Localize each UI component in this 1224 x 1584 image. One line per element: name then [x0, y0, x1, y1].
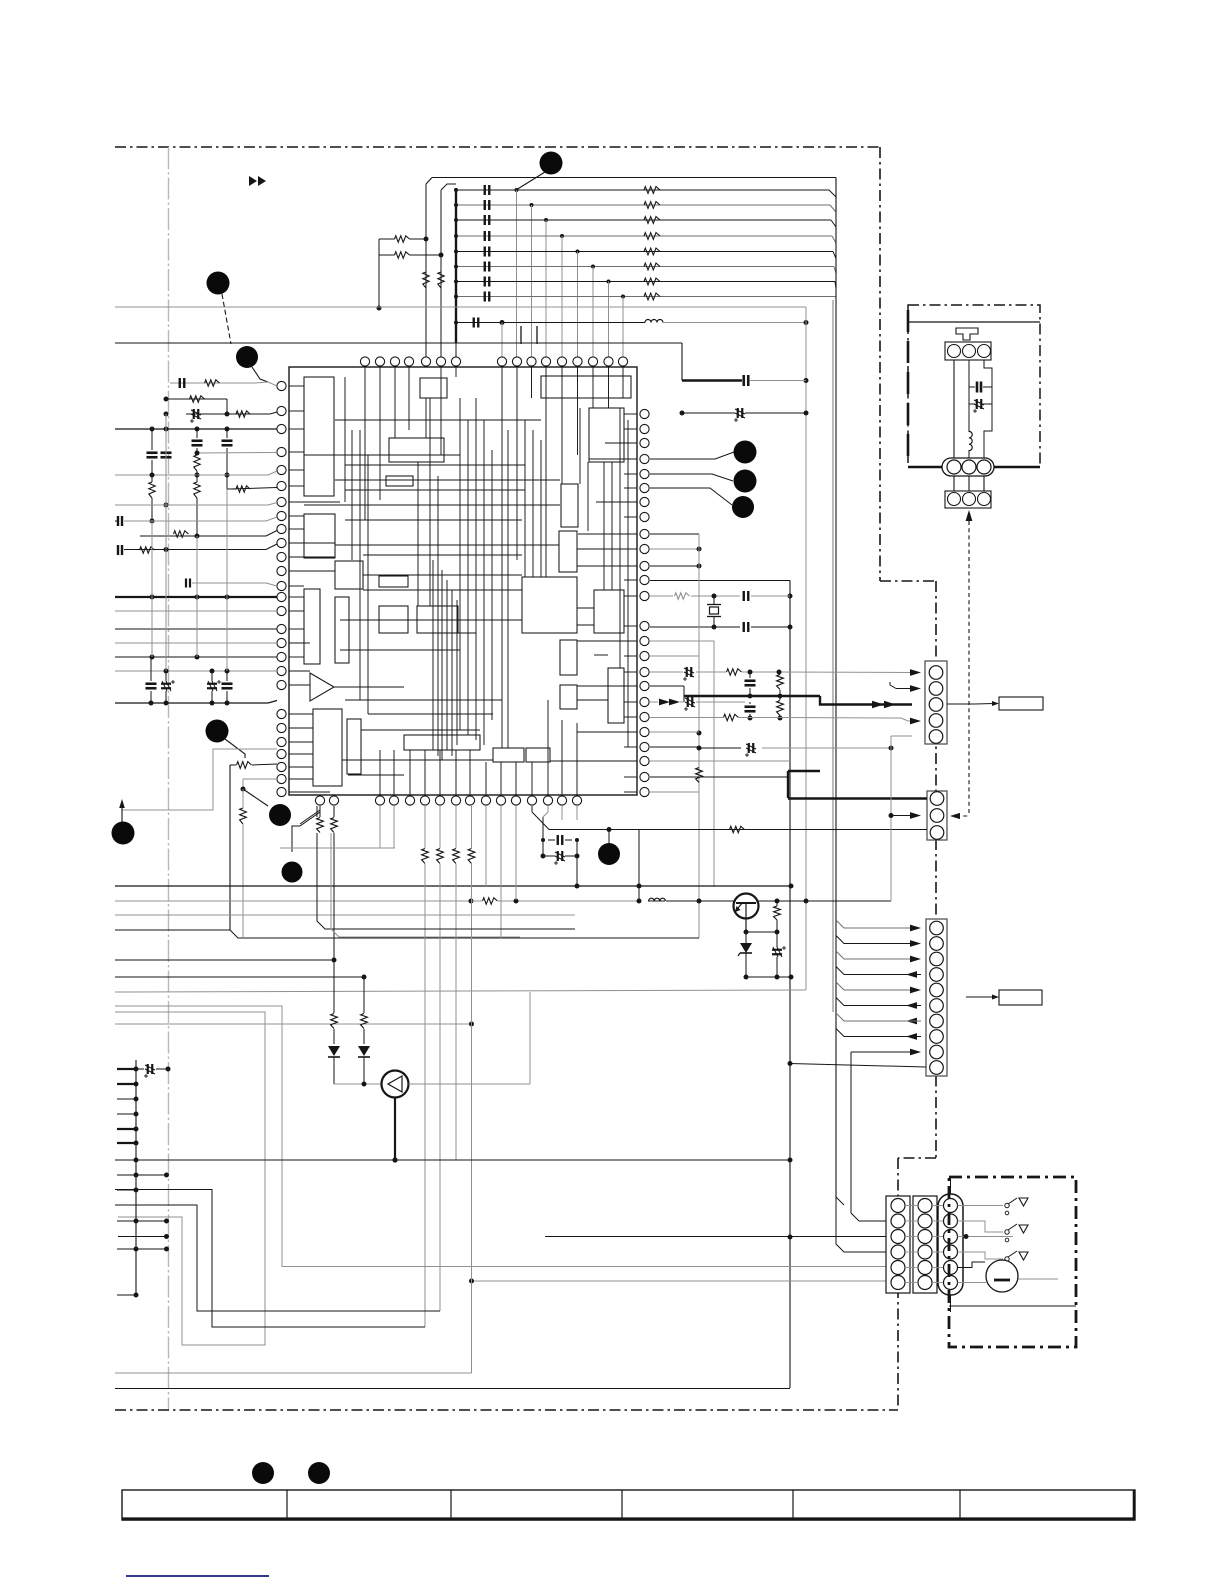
capacitor C22 — [743, 622, 745, 632]
wire: data bus line 6 — [456, 266, 834, 268]
wire y886 long — [115, 885, 791, 887]
IC internal block 2 — [420, 378, 447, 398]
diode D2 — [363, 977, 365, 1013]
IC U1 right pin — [640, 742, 649, 751]
junction — [454, 188, 458, 192]
wire bus fan 2 — [836, 936, 912, 944]
resistor R123 — [644, 233, 660, 240]
wire: right dash-dot boundary lower — [897, 1158, 899, 1408]
wire: thick vertical bus x456 — [455, 188, 457, 343]
IC internal block 15 — [559, 531, 577, 572]
wire pin13 cap — [192, 582, 266, 584]
capacitor C115 — [484, 262, 486, 272]
subunit box dash-dot — [949, 1177, 1076, 1347]
wire pin14 thick — [115, 596, 277, 598]
IC U1 bottom pin — [511, 796, 520, 805]
capacitor C12 — [146, 682, 157, 685]
wire motor feed — [958, 1262, 986, 1268]
capacitor C42 electrolytic — [557, 851, 559, 861]
arrow into CN2 pin1 — [910, 669, 921, 676]
capacitor C9 — [185, 579, 187, 588]
wire — [650, 533, 699, 535]
arrow — [910, 940, 921, 947]
wire: corner — [805, 307, 807, 323]
wire diag — [300, 806, 320, 824]
capacitor C123 electrolytic — [737, 408, 739, 418]
arrow — [910, 925, 921, 932]
wire CN3 pin2 — [891, 815, 912, 817]
caps under IC — [531, 806, 533, 812]
cap pair under IC — [542, 817, 544, 856]
IC U1 left pin — [277, 424, 286, 433]
wire bus fan 6 — [836, 998, 912, 1006]
IC U1 top pin — [390, 357, 399, 366]
IC internal block 5 — [389, 438, 444, 462]
IC U1 right pin — [640, 483, 649, 492]
pin 1 — [948, 493, 961, 506]
IC internal block 4 — [589, 408, 624, 462]
IC U1 top pin — [512, 357, 521, 366]
wire thick stem — [394, 1098, 396, 1161]
wire y1373 — [115, 1372, 472, 1374]
IC U1 top pin — [527, 357, 536, 366]
junction — [454, 234, 458, 238]
callout wire — [650, 452, 734, 459]
IC U1 left pin — [277, 406, 286, 415]
callout dot 11 — [598, 843, 620, 865]
wire thick to CN2 pin3 — [820, 696, 912, 705]
wire pin1 fan — [836, 1197, 844, 1205]
wire y1012 — [115, 1012, 265, 1345]
wire thick into CN3 pin1 — [788, 797, 927, 799]
wire stub — [117, 1113, 136, 1115]
resistor R102 — [438, 272, 444, 288]
wire y1175 stub — [118, 1174, 167, 1176]
wire CN4 pin9 — [851, 1051, 912, 1053]
wire — [229, 765, 231, 930]
wire stub pin380 — [379, 806, 381, 848]
wire pin3 long — [115, 428, 277, 430]
wire: thick supply y380 — [682, 379, 742, 382]
IC U1 top pin — [404, 357, 413, 366]
wire pin7 long — [115, 504, 268, 506]
CN6 pin 3 — [918, 1230, 932, 1244]
IC internal block 17 — [594, 590, 624, 633]
wire y1281 — [472, 1280, 887, 1282]
IC U1 top pin — [497, 357, 506, 366]
wire inner — [949, 1305, 1076, 1307]
pin 1 — [947, 460, 961, 474]
IC U1 left pin — [277, 709, 286, 718]
wire xtal net — [650, 595, 673, 597]
diode D1 — [333, 960, 335, 1013]
capacitor C15 — [222, 682, 233, 685]
wire — [953, 360, 955, 462]
wire: bus vertical x836 — [835, 178, 837, 1198]
wire y977 join — [746, 976, 791, 978]
IC U1 bottom pin — [572, 796, 581, 805]
wire bus fan 1 — [836, 920, 912, 928]
wire to IC pin x502 — [501, 323, 503, 358]
wire pin5 long — [115, 474, 268, 476]
IC U1 right pin — [640, 409, 649, 418]
resistor R121 — [644, 202, 660, 209]
capacitor C51 electrolytic — [147, 1064, 149, 1074]
IC U1 left pin — [277, 581, 286, 590]
crystal-like trimmer CT801 — [956, 328, 978, 340]
CN7 pin 3 — [944, 1230, 958, 1244]
capacitor C116 — [484, 277, 486, 287]
wire — [543, 806, 548, 817]
resistor R103 — [395, 236, 410, 242]
wire pin4 — [197, 452, 277, 455]
wire: data bus line 3 — [456, 219, 831, 221]
wire bus fan 5 — [836, 982, 912, 990]
CN6 pin 4 — [918, 1245, 932, 1259]
capacitor C41 — [557, 835, 559, 845]
IC internal block 25 — [526, 748, 550, 762]
wire: corner x682 — [681, 343, 683, 381]
wire to IC pin — [516, 190, 518, 357]
crystal X1 — [713, 596, 715, 604]
wire pin17 — [115, 642, 277, 644]
wire pin9 — [140, 535, 266, 537]
pin 1 — [948, 345, 961, 358]
junction — [607, 280, 611, 284]
wire y1006 — [115, 1006, 886, 1267]
wire x227 link — [226, 489, 228, 671]
wire — [968, 360, 970, 384]
wire — [908, 321, 1040, 323]
wire 45-bend into bus — [835, 282, 836, 289]
wire pin747 net — [650, 746, 699, 748]
resistor R3 — [236, 411, 250, 417]
wire: right dash-dot boundary mid — [935, 581, 937, 1158]
callout wire — [650, 474, 733, 481]
wire 45-bend into bus — [831, 220, 836, 227]
wire y1249 stub — [118, 1248, 167, 1250]
wire pin15 — [115, 610, 277, 612]
wire — [650, 731, 699, 733]
pin 2 — [963, 493, 976, 506]
junction — [530, 203, 534, 207]
wire y977 — [115, 976, 364, 978]
IC internal block 20 — [608, 668, 624, 723]
arrow up-gnd — [119, 799, 125, 808]
CN2 pin 5 — [929, 730, 943, 744]
callout dot 12 — [252, 1462, 274, 1484]
arrow to connector — [966, 510, 973, 521]
IC internal block 12 — [379, 606, 408, 633]
double arrow — [872, 701, 884, 708]
capacitor C117 — [484, 292, 486, 302]
wire: vertical x426 — [425, 184, 427, 362]
capacitor C26 — [745, 705, 756, 708]
IC U1 top pin — [618, 357, 627, 366]
zener diode D31 — [745, 932, 747, 943]
IC U1 top pin — [573, 357, 582, 366]
wire — [650, 655, 699, 657]
wire callout — [516, 172, 545, 190]
resistor R1 — [205, 380, 220, 386]
IC U1 top pin — [375, 357, 384, 366]
callout wire — [225, 739, 245, 758]
CN2 pin 1 — [929, 666, 943, 680]
wire — [515, 806, 517, 900]
IC U1 left pin — [277, 638, 286, 647]
wire — [650, 565, 699, 567]
CN7 pin 6 — [944, 1276, 958, 1290]
wire — [334, 1083, 382, 1085]
IC U1 right pin — [640, 651, 649, 660]
CN5 pin 6 — [891, 1276, 905, 1290]
IC internal block 3 — [541, 376, 631, 398]
wire — [958, 1282, 987, 1284]
IC U1 bottom pin — [557, 796, 566, 805]
wire y1205 route — [115, 1205, 440, 1311]
wire: bottom dash-dot boundary — [115, 1409, 898, 1411]
arrow — [906, 1033, 917, 1040]
wire: vertical x806 — [805, 307, 807, 990]
wire x790 vertical — [789, 581, 791, 1389]
IC U1 bottom pin — [451, 796, 460, 805]
wire: data bus line 4 — [456, 235, 832, 237]
title divider — [792, 1490, 794, 1520]
IC U1 bottom pin — [543, 796, 552, 805]
connector CN7 stadium — [938, 1194, 963, 1295]
double arrow marker — [249, 176, 257, 186]
wire — [650, 760, 790, 762]
resistor R43 — [422, 849, 429, 864]
wire x699 vertical — [698, 534, 700, 938]
capacitor C112 — [484, 215, 486, 225]
wire — [409, 1083, 531, 1085]
connector CN801 upper — [945, 342, 991, 360]
IC U1 left pin — [277, 592, 286, 601]
wire stub — [117, 1083, 136, 1085]
IC U1 top pin — [421, 357, 430, 366]
wire — [650, 685, 684, 687]
CN4 pin 1 — [930, 921, 944, 935]
capacitor C31 electrolytic — [772, 949, 782, 951]
wire to IC pin — [531, 205, 533, 357]
motor M1 — [986, 1260, 1018, 1292]
CN5 pin 5 — [891, 1261, 905, 1275]
wire — [968, 404, 970, 432]
IC internal wiring mesh — [364, 367, 366, 520]
capacitor C5 — [192, 439, 203, 442]
IC U1 right pin — [640, 712, 649, 721]
IC U1 right pin — [640, 756, 649, 765]
wire — [650, 776, 788, 778]
junction — [454, 265, 458, 269]
junction — [544, 218, 548, 222]
connector CN802 stadium — [942, 458, 994, 476]
wire stub — [117, 1174, 136, 1176]
wire: dash-dot jog — [880, 580, 936, 582]
capacitor C23 electrolytic — [686, 667, 688, 677]
resistor R22 — [727, 669, 742, 675]
transistor Q1 — [734, 894, 759, 919]
wire sw2 — [958, 1221, 1004, 1232]
capacitor C802 electrolytic — [976, 399, 978, 409]
wire x714 vertical — [713, 641, 715, 887]
wire pin1 — [170, 382, 277, 386]
IC U1 left pin — [277, 624, 286, 633]
wire base net y901 — [115, 900, 471, 902]
wire stub — [117, 1189, 136, 1191]
IC internal block 23 — [404, 735, 480, 750]
wire to IC pin — [561, 236, 563, 357]
resistor R32 — [774, 906, 781, 920]
wire to IC pin — [622, 297, 624, 358]
wire — [650, 548, 699, 550]
wire — [650, 626, 740, 628]
resistor R7 — [236, 486, 250, 492]
wire bus fan 7 — [836, 1013, 912, 1021]
IC U1 right pin — [640, 497, 649, 506]
wire y938 — [115, 929, 230, 931]
wire pin 672 net — [650, 671, 683, 673]
wire arrow CN2 pin2 — [896, 688, 912, 690]
resistor R24 — [777, 701, 784, 716]
IC U1 left pin — [277, 680, 286, 689]
junction — [515, 188, 519, 192]
wire — [953, 476, 955, 491]
wire 45-bend into bus — [834, 267, 836, 274]
capacitor C122 — [742, 375, 745, 386]
wire — [650, 791, 699, 793]
wire stub — [117, 1098, 136, 1100]
CN4 pin 3 — [930, 952, 944, 966]
IC internal block 18 — [560, 640, 577, 675]
CN5 pin 1 — [891, 1199, 905, 1213]
resistor R46 — [468, 849, 475, 864]
wire pin24 path — [122, 749, 277, 810]
capacitor C7 — [117, 516, 119, 526]
wire — [650, 641, 714, 642]
wire sw4 — [958, 1252, 1004, 1259]
callout wire dashed — [222, 294, 231, 344]
wire: line y343 — [115, 342, 682, 344]
wire thick y696 — [684, 695, 820, 698]
CN7 pin 5 — [944, 1261, 958, 1275]
resistor R126 — [644, 278, 660, 285]
wire: data bus line 8 — [456, 296, 836, 298]
wire y1236 stub — [118, 1236, 167, 1238]
resistor R4 — [194, 455, 200, 471]
IC internal block 22 — [347, 719, 361, 774]
junction — [454, 250, 458, 254]
capacitor C13 electrolytic — [161, 683, 171, 685]
CN3 pin 1 — [930, 792, 944, 806]
pin 3 — [978, 493, 991, 506]
pin 2 — [963, 345, 976, 358]
IC U1 left pin — [277, 481, 286, 490]
capacitor C113 — [484, 231, 486, 241]
wire col2-col3 links — [932, 1205, 943, 1207]
wire x639 — [638, 830, 640, 902]
wire x166 link — [165, 550, 167, 672]
resistor R41 — [317, 818, 324, 833]
wire y960 — [115, 959, 334, 961]
arrow — [906, 971, 917, 978]
wire CN7 up — [950, 1176, 952, 1194]
CN4 pin 5 — [930, 983, 944, 997]
IC U1 top pin — [360, 357, 369, 366]
wire — [242, 779, 244, 789]
connector CN803 lower — [945, 491, 991, 508]
wire x851 — [851, 1052, 886, 1221]
callout dot 3 — [236, 346, 258, 368]
capacitor C110 — [484, 185, 486, 195]
capacitor C3 — [147, 451, 158, 454]
IC U1 right pin — [640, 529, 649, 538]
CN6 pin 6 — [918, 1276, 932, 1290]
switch SW3 — [1005, 1257, 1009, 1261]
resistor R2 — [190, 396, 205, 402]
subcircuit box thick edges — [907, 310, 910, 462]
wire to CN2 pin5 — [891, 735, 912, 737]
CN5 pin 4 — [891, 1245, 905, 1259]
CN4 pin 9 — [930, 1045, 944, 1059]
wire pin717 net — [650, 717, 723, 719]
capacitor C114 — [484, 247, 486, 257]
wire y992 — [115, 990, 806, 992]
IC U1 top pin — [604, 357, 613, 366]
wire stub — [117, 1248, 136, 1250]
IC U1 left pin — [277, 737, 286, 746]
wire — [561, 806, 563, 820]
wire y915 — [115, 914, 575, 916]
wire pin20 black — [115, 702, 268, 704]
resistor R9 — [140, 547, 155, 553]
capacitor C801 — [976, 382, 979, 393]
IC U1 top pin — [557, 357, 566, 366]
CN7 pin 1 — [944, 1199, 958, 1213]
wire pin18 — [115, 656, 277, 658]
IC U1 right pin — [640, 561, 649, 570]
IC U1 right pin — [640, 727, 649, 736]
wire: data bus line 1 — [456, 189, 829, 191]
capacitor C21 — [743, 591, 745, 601]
wire y901 right — [758, 900, 891, 902]
crossover marks — [520, 326, 522, 344]
pin 3 — [977, 460, 991, 474]
IC internal block 9 — [304, 589, 320, 664]
wire stub — [117, 1294, 136, 1296]
CN7 pin 4 — [944, 1245, 958, 1259]
IC U1 bottom pin — [420, 796, 429, 805]
wire: top dash-dot boundary — [115, 146, 880, 148]
title divider — [450, 1490, 452, 1520]
resistor R26 — [696, 768, 703, 783]
IC internal block 11 — [379, 576, 408, 587]
CN7 pin 2 — [944, 1214, 958, 1228]
callout dot 6 — [269, 804, 291, 826]
wire to IC pin — [592, 267, 594, 358]
IC U1 top pin — [451, 357, 460, 366]
IC U1 left pin — [277, 762, 286, 771]
IC U1 left pin — [277, 749, 286, 758]
wire stub — [117, 1128, 136, 1130]
arrow — [910, 987, 921, 994]
IC internal block 16 — [522, 577, 577, 633]
capacitor C1 — [179, 378, 181, 388]
CN6 pin 1 — [918, 1199, 932, 1213]
callout dot 13 — [308, 1462, 330, 1484]
IC U1 right pin — [640, 636, 649, 645]
